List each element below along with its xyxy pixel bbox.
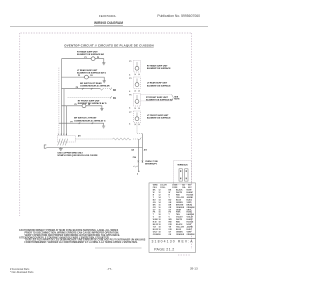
dashed wire above row 4 [68,96,111,98]
receptacle box 3 dashed [134,94,141,107]
footer functional parts [10,268,34,274]
label oven light switch [145,161,158,166]
connector J1 slot 1 [179,169,182,181]
pin label P1 [85,57,87,59]
page number label [154,248,174,252]
pin label P5 [75,104,77,106]
svg-text:COMMUTATEUR A L'INFINI AV G: COMMUTATEUR A L'INFINI AV G [74,119,106,122]
receptacle box 4 dashed [134,111,141,123]
svg-text:OR-BK18OKORANGEORANGE: OR-BK18OKORANGEORANGE [153,233,196,236]
legend table header [153,184,192,190]
surface element LR (circle) [84,75,89,79]
chassis ground row 4 [100,109,103,111]
wire break slash row 3 [110,88,112,90]
label right 4 [147,115,171,120]
svg-text:ELEMENT DE SURFACE: ELEMENT DE SURFACE [147,67,171,70]
terminal block TB1 dashed box [58,136,76,142]
terminal X between 2-3 [135,90,140,91]
wire break slash row 4 upper [110,96,112,98]
switch contacts row 5 [79,123,93,125]
power cord wire [46,146,142,148]
svg-text:ELEMENT DE SURFACE: ELEMENT DE SURFACE [147,117,171,120]
label right 2 [147,82,171,88]
wire row 1 [62,58,91,60]
svg-text:RT REAR SURF UNIT: RT REAR SURF UNIT [77,51,98,54]
svg-text:P5: P5 [129,94,131,96]
pin label P9 [76,87,78,89]
wire middle vertical v6 [141,134,143,164]
svg-text:39-13: 39-13 [190,266,198,270]
junction slash [140,138,142,140]
node AB label [144,149,148,152]
diagram title [64,43,153,47]
node AA label [131,149,134,152]
svg-text:2: 2 [61,134,62,136]
svg-text:Publication No. 5995607060: Publication No. 5995607060 [157,14,200,18]
svg-text:* Non-Illustrated Parts: * Non-Illustrated Parts [10,271,34,274]
svg-text:INF SWITCH RT REAR: INF SWITCH RT REAR [80,82,102,85]
bus wire G vertical [66,106,68,136]
svg-text:LT REAR SURF UNIT: LT REAR SURF UNIT [77,69,98,72]
svg-text:TERM BLK: TERM BLK [177,164,188,166]
terminal block slashes [58,139,68,146]
dashed callout lines from box 3 [141,95,172,101]
svg-text:RT REAR SURF UNIT: RT REAR SURF UNIT [147,65,168,68]
svg-text:P9: P9 [76,87,78,89]
svg-text:P24: P24 [133,156,136,159]
svg-text:ELEMENT DE SURFACE: ELEMENT DE SURFACE [147,84,171,87]
label infinite switch RT [80,82,110,88]
dashed page border left [19,33,21,216]
wire row 5 [59,122,101,124]
surface element 1 circle [135,62,139,70]
svg-text:4: 4 [129,90,130,93]
svg-text:P7: P7 [71,121,73,123]
wire row 1 right [95,59,103,63]
power cord label [58,152,99,157]
wire row 3 dip [100,89,103,91]
svg-text:A B: A B [144,149,148,152]
wire row 3 [62,88,101,90]
dashed page border top [21,32,192,34]
wire row 2 [62,76,85,78]
svg-text:R2: R2 [113,90,117,92]
wire row 3 dashed tail [103,88,111,90]
legend table box [149,183,196,239]
label surface unit LR [77,69,107,75]
chassis ground row 2 [103,81,106,83]
svg-text:4: 4 [129,74,130,77]
pin label P24 [133,156,136,159]
svg-text:ELEMENT DE SURFACE AV D: ELEMENT DE SURFACE AV D [78,102,107,105]
header rule [10,26,208,28]
surface element 3 circle [135,95,139,103]
svg-text:P3: P3 [78,75,80,77]
terminal block pin labels [58,133,67,136]
footer page number [107,267,113,271]
terminal X between 1-2 [135,74,140,75]
surface element 4 circle [135,113,139,121]
earth ground symbol [59,147,63,150]
svg-text:P4: P4 [90,74,92,77]
svg-text:-77-: -77- [107,267,113,271]
net label R1 [113,98,117,100]
terminal X below 4 [135,124,140,125]
wire row 5 right [100,123,103,126]
chassis ground row 1 [102,63,105,65]
svg-text:b: b [137,174,138,176]
dashed wire to coil [76,138,113,140]
callout brace [172,95,174,101]
svg-text:FEOF504DL: FEOF504DL [99,14,117,18]
svg-text:OVENTOP CIRCUIT // CIRCUITS DE: OVENTOP CIRCUIT // CIRCUITS DE PLAQUE DE… [64,43,153,47]
svg-text:P7: P7 [129,112,131,114]
svg-text:4: 4 [129,106,130,109]
pin label P6 [88,104,90,106]
switch contacts row 3 [82,88,92,90]
svg-text:ELEMENT DE SURFACE AV: ELEMENT DE SURFACE AV [146,99,173,102]
receptacle box 2 dashed [134,77,141,88]
svg-text:P1: P1 [129,61,131,63]
wire middle vertical v5 [137,139,139,171]
bus wire L1 vertical [61,59,63,136]
connector J1 dashed box [174,161,192,185]
wire row 2 right [89,77,105,81]
svg-text:COMMUTATEUR A L'INFINI AR: COMMUTATEUR A L'INFINI AR [80,85,110,88]
net label R2 [113,90,117,92]
callout label [174,96,180,100]
svg-text:FONCTIONNEMENT. VERIFIER LE FO: FONCTIONNEMENT. VERIFIER LE FONCTIONNEME… [25,241,138,244]
svg-text:NOTE: NOTE [174,99,180,101]
svg-text:P3: P3 [129,78,131,80]
svg-text:PAGE 21.2: PAGE 21.2 [154,248,174,252]
lamp squiggle [133,166,138,167]
chassis ground row 5 [102,126,105,128]
power supply plug [44,145,46,148]
svg-text:31804130 REV:A: 31804130 REV:A [152,239,194,243]
pin label P4 [90,74,92,77]
dashed page border bottom [178,254,191,256]
svg-text:INTERRUPT.: INTERRUPT. [145,163,157,165]
header title WIRING DIAGRAM [94,21,123,25]
svg-text:R1: R1 [113,98,117,100]
terminal X marks v5 v6 [138,161,144,163]
dashed page border right [191,33,193,249]
label right 1 [147,65,171,71]
header publication number [157,14,200,18]
bus wire L2 vertical [63,89,65,136]
svg-text:AH: AH [78,134,81,137]
svg-text:LT REAR SURF UNIT: LT REAR SURF UNIT [147,82,168,85]
svg-text:WIRING DIAGRAM: WIRING DIAGRAM [94,21,123,25]
svg-text:N'EMPLOYER QUE DES FILS DE CUI: N'EMPLOYER QUE DES FILS DE CUIVRE [58,155,99,157]
wire row 4 right [86,106,102,109]
revision number [152,239,194,243]
note underline wire [95,247,142,249]
wire row 4 [62,105,82,107]
svg-text:ELEMENT DE SURFACE AR: ELEMENT DE SURFACE AR [77,53,105,56]
node AH label [78,134,81,137]
header model number [99,14,117,18]
notes text block [19,229,146,244]
svg-text:4: 4 [129,123,130,126]
svg-text:ELEMENT DE SURFACE AR G: ELEMENT DE SURFACE AR G [77,72,107,75]
label surface unit RF [77,51,105,57]
connector J1 label [177,164,188,166]
label right 3 [146,97,173,102]
label surface unit RF row4 [78,100,107,105]
surface element 2 circle [135,79,139,87]
coil heating element squiggle [113,138,131,140]
surface element RF (circle) [81,104,86,108]
svg-text:AA: AA [131,149,134,152]
label infinite switch LT row5 [74,118,106,123]
connector J1 slot 2 [185,169,188,181]
pin label P3 [78,75,80,77]
bus wire N vertical dashed [58,68,60,136]
strip pin labels [129,61,131,125]
terminal X between 3-4 [135,108,140,109]
dashed link from strip to v6 [137,124,142,134]
svg-text:P1: P1 [85,57,87,59]
dashed wire after coil [133,138,138,140]
receptacle box 1 dashed [134,61,141,73]
revision box [149,238,196,252]
pin label P7 [71,121,73,123]
surface element RR (circle) [90,57,96,61]
junction dot node B [137,171,140,176]
svg-text:P5: P5 [75,104,77,106]
legend table rows [153,189,196,236]
pin label P2 [97,57,99,59]
footer doc code [190,266,198,270]
